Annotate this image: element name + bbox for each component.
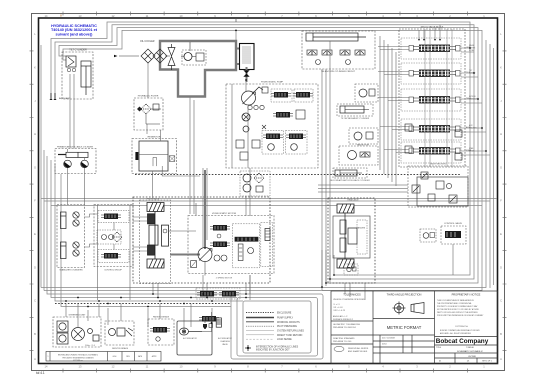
svg-text:SURFACE FINISH 3.2: SURFACE FINISH 3.2 xyxy=(333,318,354,321)
svg-text:DRAFTING STANDARD: DRAFTING STANDARD xyxy=(333,337,355,340)
svg-text:6577088: 6577088 xyxy=(468,356,475,358)
svg-text:HYDROSTATIC PUMP: HYDROSTATIC PUMP xyxy=(261,81,284,84)
svg-text:B: B xyxy=(34,332,36,336)
svg-text:TILT ATTACHMENT CYLINDER: TILT ATTACHMENT CYLINDER xyxy=(341,117,370,120)
svg-text:SCHEMATIC HYDRAULIC: SCHEMATIC HYDRAULIC xyxy=(457,350,483,353)
svg-text:SYSTEM RETURN LINES: SYSTEM RETURN LINES xyxy=(277,331,304,333)
svg-text:ACCUMULATOR: ACCUMULATOR xyxy=(218,337,232,340)
svg-text:GEOMETRIC TOLERANCING: GEOMETRIC TOLERANCING xyxy=(333,323,360,326)
svg-text:HYDRAULIC SCHEMATIC: HYDRAULIC SCHEMATIC xyxy=(51,24,97,28)
svg-text:PUMP SUPPLY: PUMP SUPPLY xyxy=(277,318,294,320)
svg-text:A: A xyxy=(34,357,36,361)
svg-text:INDICATED BY JUNCTION DOT: INDICATED BY JUNCTION DOT xyxy=(256,349,290,352)
svg-text:1: 1 xyxy=(48,356,49,358)
svg-text:LOAD SENSE: LOAD SENSE xyxy=(277,338,292,341)
svg-text:TILT CYLINDER: TILT CYLINDER xyxy=(69,49,87,52)
svg-text:UP/DN: UP/DN xyxy=(469,151,475,153)
svg-text:SERVICE BRAKE: SERVICE BRAKE xyxy=(112,347,129,350)
svg-text:UNLESS OTHERWISE SPECIFIED: UNLESS OTHERWISE SPECIFIED xyxy=(333,299,365,301)
svg-text:PROPERTY OF BOBCAT COMPANY AND: PROPERTY OF BOBCAT COMPANY AND IT MAY xyxy=(437,305,478,308)
svg-text:BCKWD: BCKWD xyxy=(469,73,476,75)
svg-text:TOLERANCES: TOLERANCES xyxy=(343,293,361,297)
svg-text:INLET SECTION: INLET SECTION xyxy=(430,164,446,166)
svg-text:CONTROL GROUP: CONTROL GROUP xyxy=(104,270,122,272)
svg-text:ANGULAR +/- 1°: ANGULAR +/- 1° xyxy=(333,315,348,318)
svg-text:INTERSECTION OF HYDRAULIC LINE: INTERSECTION OF HYDRAULIC LINES xyxy=(256,346,299,349)
svg-text:E: E xyxy=(34,232,36,236)
svg-text:0054: 0054 xyxy=(113,356,117,358)
svg-text:tul 4.1: tul 4.1 xyxy=(36,371,45,375)
svg-text:SHT 1 OF 1: SHT 1 OF 1 xyxy=(482,361,492,363)
svg-text:CONTROL VALVE: CONTROL VALVE xyxy=(444,222,462,225)
svg-text:AND SHARP EDGES: AND SHARP EDGES xyxy=(348,350,368,353)
svg-text:VALVE: VALVE xyxy=(222,343,228,346)
svg-text:STABILIZER CYLINDERS: STABILIZER CYLINDERS xyxy=(59,269,83,272)
svg-text:PARTY OR DIVULGED WITHOUT THE: PARTY OR DIVULGED WITHOUT THE EXPRESS xyxy=(437,311,478,314)
svg-text:D: D xyxy=(500,265,502,269)
svg-text:METRIC FORMAT: METRIC FORMAT xyxy=(387,325,422,330)
svg-text:FWD/REV: FWD/REV xyxy=(469,128,478,130)
svg-text:HYDROSTATIC MOTOR: HYDROSTATIC MOTOR xyxy=(212,212,236,215)
svg-text:ACCUMULATOR: ACCUMULATOR xyxy=(183,337,197,340)
svg-text:A: A xyxy=(500,357,502,361)
svg-text:PRIOR WRITTEN PERMISSION OF BO: PRIOR WRITTEN PERMISSION OF BOBCAT COMPA… xyxy=(437,314,484,317)
svg-text:H: H xyxy=(34,132,36,136)
svg-text:TITLE: TITLE xyxy=(436,347,442,349)
svg-text:2 SPEED MOTOR: 2 SPEED MOTOR xyxy=(216,278,233,280)
svg-text:E: E xyxy=(500,232,502,236)
svg-text:WORKING CIRCUITS: WORKING CIRCUITS xyxy=(277,322,300,324)
svg-text:THIRD ANGLE PROJECTION: THIRD ANGLE PROJECTION xyxy=(387,293,422,297)
svg-text:PILOT PRESSURE: PILOT PRESSURE xyxy=(277,326,297,328)
svg-text:Bobcat Company: Bobcat Company xyxy=(436,338,489,345)
svg-text:C: C xyxy=(500,299,502,303)
svg-text:300cc / 1.6: 300cc / 1.6 xyxy=(85,345,96,347)
svg-text:6577088 rev: 6577088 rev xyxy=(73,359,83,362)
svg-text:.XX +/- 0.8: .XX +/- 0.8 xyxy=(333,307,343,309)
svg-text:FLOAT: FLOAT xyxy=(469,49,474,52)
svg-text:.X +/- 3: .X +/- 3 xyxy=(333,304,340,306)
svg-text:REMOVE ALL BURRS: REMOVE ALL BURRS xyxy=(348,347,369,350)
svg-text:1/1: 1/1 xyxy=(467,361,470,363)
svg-text:PROPRIETARY NOTICE: PROPRIETARY NOTICE xyxy=(452,293,481,297)
svg-text:SPOOL VALVE BLOCK: SPOOL VALVE BLOCK xyxy=(421,26,444,29)
svg-text:CHARGING: CHARGING xyxy=(220,340,230,343)
svg-text:FRONT AXLE: FRONT AXLE xyxy=(147,198,160,201)
svg-text:BOBCAT COMPANY, AN UNVERSALLY: BOBCAT COMPANY, AN UNVERSALLY KNOWN xyxy=(440,329,480,332)
svg-text:RESERVOIR: RESERVOIR xyxy=(148,137,161,139)
svg-text:THE PROPRIETARY AND CONFIDENTI: THE PROPRIETARY AND CONFIDENTIAL xyxy=(437,302,472,305)
svg-text:G: G xyxy=(500,165,502,169)
svg-text:D: D xyxy=(34,265,36,269)
svg-text:C: C xyxy=(34,299,36,303)
svg-text:D1: D1 xyxy=(439,361,441,363)
svg-text:STEERING UNIT: STEERING UNIT xyxy=(69,315,87,317)
svg-text:ENCLOSURE: ENCLOSURE xyxy=(277,313,292,315)
svg-text:HYDRAULIC FILTER: HYDRAULIC FILTER xyxy=(138,95,159,98)
svg-text:SECONDARY ANTI-ROLLBACK CYLIND: SECONDARY ANTI-ROLLBACK CYLINDER xyxy=(330,179,370,182)
svg-text:PER ASME Y14.5M-1994: PER ASME Y14.5M-1994 xyxy=(333,326,357,329)
svg-text:000 / 1234568: 000 / 1234568 xyxy=(382,338,396,340)
svg-text:B: B xyxy=(500,332,502,336)
svg-text:K: K xyxy=(34,66,36,70)
svg-text:PARKING BRAKE: PARKING BRAKE xyxy=(153,316,170,319)
svg-text:T40140: T40140 xyxy=(466,347,474,349)
svg-text:K: K xyxy=(500,66,502,70)
svg-text:PER ASME Y14.100: PER ASME Y14.100 xyxy=(333,340,352,343)
svg-text:COPYRIGHT ⊕: COPYRIGHT ⊕ xyxy=(455,325,468,328)
svg-text:FAN MOTOR: FAN MOTOR xyxy=(357,144,369,147)
svg-text:H: H xyxy=(500,132,502,136)
svg-text:REAR AXLE: REAR AXLE xyxy=(347,199,359,202)
svg-text:DIRECT TANK RETURN: DIRECT TANK RETURN xyxy=(277,334,303,337)
svg-text:suivant (and above)): suivant (and above)) xyxy=(56,33,94,37)
svg-text:AUXILIARY: AUXILIARY xyxy=(59,97,71,100)
svg-text:REVISED AND UPDATED HYDRAULIC: REVISED AND UPDATED HYDRAULIC SCHEMATIC xyxy=(58,354,99,357)
svg-text:THIS DOCUMENT AND/OR DATA HERE: THIS DOCUMENT AND/OR DATA HEREIN IS xyxy=(437,299,475,302)
svg-text:TANDEM: TANDEM xyxy=(357,227,366,230)
svg-text:RETRACT: RETRACT xyxy=(469,98,477,101)
svg-text:NOT BE REPRODUCED TO OR USED B: NOT BE REPRODUCED TO OR USED BY A THIRD xyxy=(437,308,480,311)
svg-text:AFFILIATE - ALL RIGHTS RESERVE: AFFILIATE - ALL RIGHTS RESERVED xyxy=(440,332,472,335)
svg-text:PRIMARY ANTI-ROLLBACK CYLINDER: PRIMARY ANTI-ROLLBACK CYLINDER xyxy=(57,146,94,149)
svg-text:APPR: APPR xyxy=(152,355,157,358)
svg-text:T40140 (S/N 363212001 et: T40140 (S/N 363212001 et xyxy=(51,28,98,32)
svg-text:G: G xyxy=(34,165,36,169)
svg-text:OIL COOLER: OIL COOLER xyxy=(140,40,155,43)
svg-text:.XXX +/- 0.25: .XXX +/- 0.25 xyxy=(333,310,346,312)
